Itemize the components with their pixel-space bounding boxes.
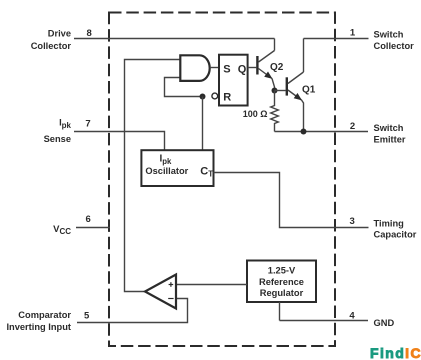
- pin 2 lead wire (Switch Emitter): [275, 131, 369, 133]
- node: R input junction dot: [200, 94, 206, 100]
- Timing Capacitor label: [374, 219, 417, 240]
- SR latch box: [219, 55, 248, 106]
- wire: latch Q output to Q2 base: [248, 67, 257, 69]
- transistor Q2: [257, 51, 274, 91]
- wire: R node down to oscillator: [202, 97, 204, 151]
- pin 7 lead wire (Ipk Sense) into oscillator: [74, 132, 165, 151]
- svg-text:Comparator: Comparator: [18, 310, 71, 320]
- reference regulator box: [247, 261, 316, 303]
- svg-text:GND: GND: [374, 318, 395, 328]
- svg-text:2: 2: [350, 121, 355, 132]
- svg-text:7: 7: [85, 119, 90, 130]
- pin 3 lead wire (Timing Capacitor): [335, 227, 369, 229]
- node: Q2 emitter / Q1 base / resistor junction dot: [272, 88, 278, 94]
- Switch Emitter label: [374, 123, 406, 145]
- svg-text:1.25-V: 1.25-V: [268, 266, 296, 276]
- svg-text:3: 3: [350, 216, 355, 227]
- IC boundary dashed border: [109, 13, 335, 347]
- svg-text:6: 6: [86, 214, 91, 225]
- svg-text:8: 8: [87, 28, 92, 39]
- wire: Q2 collector up to pin 8 line: [274, 39, 276, 51]
- pin 4 lead wire (GND): [280, 320, 369, 322]
- AND gate U1: [180, 55, 209, 81]
- svg-text:Drive: Drive: [48, 28, 71, 38]
- wire: AND output to latch S input: [210, 67, 219, 69]
- svg-text:Switch: Switch: [374, 123, 404, 133]
- svg-text:S: S: [223, 64, 230, 76]
- R input inverter bubble: [212, 93, 218, 99]
- pin 6 lead wire (VCC): [76, 227, 110, 229]
- Comparator Inverting Input label: [6, 310, 71, 332]
- svg-text:Capacitor: Capacitor: [374, 230, 417, 240]
- oscillator box: [141, 150, 213, 186]
- wire: reference regulator ground to pin 4 line: [279, 302, 281, 321]
- svg-text:Q: Q: [238, 64, 247, 76]
- svg-text:100 Ω: 100 Ω: [243, 109, 268, 119]
- wire: comparator output up to AND gate top input: [125, 60, 181, 292]
- node: Q1 emitter on pin 2 line dot: [301, 129, 307, 135]
- 1.25-V Reference Regulator label: [259, 266, 304, 298]
- svg-text:Emitter: Emitter: [374, 135, 406, 145]
- svg-text:Switch: Switch: [374, 29, 404, 39]
- svg-text:Oscillator: Oscillator: [145, 166, 188, 176]
- svg-text:Inverting Input: Inverting Input: [6, 322, 71, 332]
- svg-text:Collector: Collector: [374, 41, 415, 51]
- svg-text:4: 4: [349, 310, 355, 321]
- wire: reference regulator output to comparator plus input: [176, 284, 247, 286]
- wire: node to Q1 base: [275, 90, 286, 92]
- pin 8 lead wire (Drive Collector): [74, 38, 275, 40]
- wire: CT output to pin 3 (timing capacitor): [214, 173, 336, 228]
- svg-text:Reference: Reference: [259, 277, 304, 287]
- Drive Collector label: [31, 28, 72, 51]
- svg-text:Collector: Collector: [31, 41, 72, 51]
- comparator plus input mark: [169, 282, 174, 287]
- pin 1 lead wire (Switch Collector): [304, 38, 369, 40]
- svg-text:R: R: [223, 92, 231, 104]
- Ipk Sense label: [44, 118, 72, 144]
- svg-text:FindIC: FindIC: [370, 345, 421, 360]
- pin 5 lead wire (Comparator Inverting Input) to comparator minus input: [77, 299, 188, 323]
- Switch Collector label: [374, 29, 415, 51]
- svg-text:Q1: Q1: [302, 85, 316, 96]
- svg-text:Q2: Q2: [270, 62, 284, 73]
- wire: AND gate bottom input from R node: [165, 78, 203, 97]
- resistor 100 ohm: [271, 91, 279, 132]
- wire: Q1 collector up to pin 1 line: [303, 39, 305, 73]
- svg-text:1: 1: [350, 27, 356, 38]
- comparator minus input mark: [168, 298, 173, 300]
- svg-text:Regulator: Regulator: [260, 288, 304, 298]
- transistor Q1: [287, 72, 304, 132]
- svg-text:Sense: Sense: [44, 134, 71, 144]
- Ipk oscillator label: [145, 154, 188, 176]
- svg-text:Timing: Timing: [374, 219, 405, 229]
- comparator U2: [145, 275, 176, 309]
- svg-text:5: 5: [84, 311, 90, 322]
